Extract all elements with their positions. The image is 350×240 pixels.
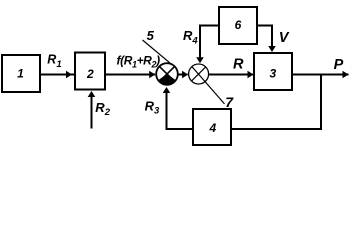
block 6: [219, 7, 257, 44]
svg-text:1: 1: [17, 67, 24, 81]
svg-text:P: P: [334, 57, 344, 73]
svg-text:5: 5: [147, 28, 155, 43]
svg-text:V: V: [279, 30, 290, 46]
svg-text:2: 2: [86, 67, 94, 81]
wire P: block 3 output to right edge: [292, 71, 349, 79]
wire R4: block 6 left side down into junction 7: [196, 26, 219, 64]
svg-text:4: 4: [208, 121, 216, 135]
svg-text:R1: R1: [47, 53, 61, 70]
wire V: block 6 right side down into block 3: [257, 26, 276, 53]
callout line 5: [143, 40, 170, 63]
svg-text:7: 7: [225, 94, 234, 110]
callout line 7 (extension of junction diagonal): [192, 66, 225, 104]
svg-text:R4: R4: [183, 28, 198, 46]
block 3: [254, 53, 292, 90]
svg-text:f(R1+R2): f(R1+R2): [117, 54, 161, 70]
wire R2 input into block 2 bottom: [88, 91, 96, 129]
summing junction 7: [189, 64, 209, 84]
svg-text:6: 6: [235, 18, 242, 32]
wire R1: block 1 to block 2: [40, 71, 75, 79]
block 4: [193, 109, 231, 145]
wire f(R1+R2): block 2 to summing junction 5: [105, 71, 155, 79]
svg-text:3: 3: [269, 66, 276, 80]
summing junction 5 (comparator circle, filled bottom quadrant): [156, 63, 178, 85]
block 1: [2, 55, 40, 92]
svg-text:R3: R3: [145, 99, 160, 117]
wire junction 5 to junction 7: [178, 71, 188, 79]
svg-text:R2: R2: [95, 100, 110, 118]
block 2: [75, 53, 105, 90]
wire R: junction 7 to block 3: [209, 71, 253, 79]
wire R3 feedback riser into junction 5: [163, 87, 193, 129]
svg-text:R: R: [233, 56, 244, 72]
wire branch from P line down and left into block 4: [231, 75, 321, 130]
